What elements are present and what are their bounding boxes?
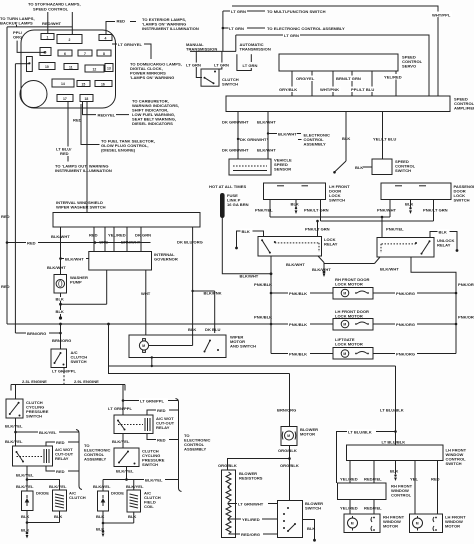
svg-text:ORG/BLK: ORG/BLK — [278, 448, 297, 453]
svg-text:PNK/ORG: PNK/ORG — [458, 282, 474, 287]
wire red/yel from fuse 18 — [83, 102, 97, 115]
fuse 13 — [105, 64, 113, 72]
clutch cycling pressure switch 2.3L — [6, 399, 23, 418]
svg-text:BLK: BLK — [405, 201, 413, 206]
pass switch pnk/wht pin — [389, 200, 391, 218]
left bus 2: from fuse 9 to brn/org corner — [14, 64, 16, 333]
brn/org tap — [59, 323, 62, 326]
diode 2.9L — [98, 491, 109, 511]
svg-text:SWITCH: SWITCH — [305, 506, 321, 511]
svg-text:BLK: BLK — [390, 469, 398, 474]
rh lock motor wires — [271, 292, 333, 294]
blk hook to lock relay — [237, 231, 264, 248]
speed control amplifier — [226, 96, 450, 112]
svg-text:GOVERNOR: GOVERNOR — [154, 257, 178, 262]
svg-text:PPL/LT BLU: PPL/LT BLU — [351, 87, 374, 92]
left bus red — [6, 27, 8, 324]
svg-text:LT GRN: LT GRN — [186, 62, 201, 67]
svg-text:PNK/BLK: PNK/BLK — [289, 291, 307, 296]
svg-text:10: 10 — [45, 65, 49, 69]
svg-text:BLK/YEL: BLK/YEL — [126, 484, 144, 489]
svg-text:BLK/YEL: BLK/YEL — [16, 473, 34, 478]
svg-text:RED/YEL: RED/YEL — [364, 477, 382, 482]
wht/ppl wire top right — [232, 6, 438, 96]
a/c clutch field coil — [127, 490, 141, 512]
svg-text:BLK: BLK — [291, 201, 299, 206]
transmission junction line — [190, 50, 236, 52]
svg-text:DK GRN: DK GRN — [135, 233, 151, 238]
svg-text:YEL/RED: YEL/RED — [108, 233, 126, 238]
lt grn riser — [222, 11, 224, 51]
speed control servo — [279, 54, 398, 71]
svg-text:2: 2 — [69, 38, 71, 42]
svg-text:LT GRN: LT GRN — [229, 26, 244, 31]
svg-text:SWITCH: SWITCH — [222, 82, 238, 87]
svg-text:ORG/YEL: ORG/YEL — [296, 76, 315, 81]
svg-text:AMPLIFIER: AMPLIFIER — [454, 106, 474, 111]
svg-text:RESISTORS: RESISTORS — [239, 476, 263, 481]
svg-text:PNK/YEL: PNK/YEL — [255, 208, 273, 213]
svg-text:ORG: ORG — [99, 240, 108, 245]
fuse 16 — [95, 81, 112, 87]
svg-text:BLK/YEL: BLK/YEL — [39, 430, 57, 435]
wiper motor and switch box — [129, 335, 226, 358]
svg-text:ORG: ORG — [13, 35, 22, 40]
relay output 2.3L — [26, 466, 28, 491]
diode 2.3L — [22, 491, 34, 511]
svg-text:LT GRN/PPL: LT GRN/PPL — [140, 398, 164, 403]
svg-text:MOTOR: MOTOR — [445, 524, 460, 529]
svg-text:6: 6 — [64, 52, 66, 56]
servo wire labels — [295, 76, 315, 82]
fuse 12 — [85, 65, 104, 72]
svg-text:WHT: WHT — [141, 291, 151, 296]
rh front window motor — [344, 514, 380, 533]
svg-text:BRN/ORG: BRN/ORG — [277, 408, 296, 413]
svg-text:RELAY: RELAY — [156, 425, 170, 430]
svg-text:YEL/RED: YEL/RED — [340, 477, 358, 482]
svg-text:SENSOR: SENSOR — [274, 167, 291, 172]
svg-text:DIODE: DIODE — [36, 491, 49, 496]
wire from stop/hazard label to fuse 2 — [71, 12, 73, 35]
svg-text:PNK/BLK: PNK/BLK — [254, 282, 272, 287]
svg-text:LT BLU/BLK: LT BLU/BLK — [348, 429, 372, 434]
blk ground from blower switch — [303, 520, 315, 540]
lh front window motor — [410, 514, 443, 533]
svg-text:DK GRN/WHT: DK GRN/WHT — [222, 120, 249, 125]
svg-text:PNK/WHT: PNK/WHT — [377, 208, 397, 213]
svg-text:INSTRUMENT ILLUMINATION: INSTRUMENT ILLUMINATION — [142, 26, 199, 31]
svg-text:SWITCH: SWITCH — [329, 197, 345, 202]
fuse 14 — [52, 79, 74, 87]
svg-text:2.3L ENGINE: 2.3L ENGINE — [22, 379, 47, 384]
svg-text:M: M — [416, 522, 419, 526]
svg-text:BLK/WHT: BLK/WHT — [286, 262, 305, 267]
svg-text:INSTRUMENT ILLUMINATION: INSTRUMENT ILLUMINATION — [55, 168, 112, 173]
lt blu/blk jumper to rh control — [337, 432, 396, 484]
clutch cycling pressure switch 2.9L — [114, 448, 139, 467]
blk wire from amplifier — [345, 112, 347, 162]
fuse 7 — [78, 50, 92, 56]
svg-text:RED/YEL: RED/YEL — [98, 112, 116, 117]
branch to blower resistors — [228, 459, 290, 471]
svg-text:BLK: BLK — [355, 165, 363, 170]
svg-text:CONTROL: CONTROL — [391, 493, 412, 498]
blk/yel jumper to eca bracket — [16, 431, 80, 433]
svg-text:8: 8 — [103, 52, 105, 56]
svg-text:RELAY: RELAY — [324, 242, 338, 247]
svg-text:RED: RED — [1, 214, 10, 219]
svg-text:PNK/ORG: PNK/ORG — [396, 351, 415, 356]
svg-text:RED: RED — [56, 440, 65, 445]
liftgate motor wires — [271, 353, 333, 355]
svg-text:DK BLU/ORG: DK BLU/ORG — [177, 240, 203, 245]
svg-text:BLK/WHT: BLK/WHT — [51, 234, 70, 239]
fuse panel outline — [21, 30, 116, 108]
lt blu/blk junction — [394, 430, 397, 433]
lh switch blk ground — [295, 200, 297, 208]
lt grn/ppl jumper to eca bracket 2.9L — [123, 400, 179, 402]
lh switch pnk/yel pin — [269, 200, 271, 218]
svg-text:15: 15 — [82, 82, 86, 86]
svg-text:18: 18 — [85, 97, 89, 101]
svg-text:DIESEL INDICATORS: DIESEL INDICATORS — [132, 121, 173, 126]
svg-text:YEL: YEL — [410, 477, 418, 482]
window feed tap — [107, 323, 110, 326]
svg-text:RED: RED — [157, 437, 166, 442]
red bottom wire 2.9L relay — [147, 434, 179, 440]
wiper switch red pin — [93, 227, 95, 252]
unlock relay output to pnk/org bus — [411, 257, 456, 354]
wire feed to wiper switch — [86, 102, 88, 213]
svg-text:RED/ORG: RED/ORG — [241, 532, 260, 537]
svg-text:RED/WHT: RED/WHT — [42, 21, 62, 26]
washer pump ground — [60, 293, 62, 297]
svg-text:PNK/ORG: PNK/ORG — [396, 322, 415, 327]
svg-text:14: 14 — [61, 82, 65, 86]
svg-text:PNK/LT GRN: PNK/LT GRN — [423, 208, 448, 213]
label electronic control assembly — [298, 139, 302, 141]
svg-text:7: 7 — [84, 52, 86, 56]
svg-text:2.9L ENGINE: 2.9L ENGINE — [74, 379, 99, 384]
svg-text:BLK: BLK — [307, 526, 315, 531]
long feed line to lock motors — [7, 323, 271, 325]
pnk/yel bus — [270, 216, 390, 218]
svg-text:BLK: BLK — [128, 514, 136, 519]
2.9L column wire — [122, 385, 124, 416]
lock relay bottom pin to bus — [270, 256, 272, 354]
svg-text:YEL/LT BLU: YEL/LT BLU — [373, 136, 396, 141]
svg-text:M: M — [287, 434, 290, 438]
wire lt grn/yel exit — [112, 43, 117, 45]
brn/org jog from left bus — [15, 332, 60, 334]
svg-text:ASSEMBLY: ASSEMBLY — [84, 457, 107, 462]
wire red drop from fuse 17 to lamps-out arrow — [67, 102, 69, 147]
lh switch pnk/lt grn pin — [320, 200, 322, 222]
svg-text:PNK/ORG: PNK/ORG — [396, 291, 415, 296]
lh lock motor wires — [271, 323, 333, 325]
svg-text:BLK/YEL: BLK/YEL — [145, 477, 163, 482]
a/c clutch switch — [51, 349, 67, 368]
eca bracket 2.9L — [176, 399, 182, 492]
red feed junction — [7, 242, 151, 244]
svg-text:BLK/YEL: BLK/YEL — [5, 439, 23, 444]
fuse 6 — [58, 50, 72, 56]
stub to multi-function switch — [223, 10, 230, 12]
yel/lt blu wire — [382, 112, 384, 160]
svg-text:PNK/LT GRN: PNK/LT GRN — [305, 227, 330, 232]
svg-text:PNK/BLK: PNK/BLK — [289, 322, 307, 327]
svg-text:LOCK MOTOR: LOCK MOTOR — [335, 282, 363, 287]
svg-text:16 GA BRN: 16 GA BRN — [227, 202, 249, 207]
svg-text:BLK/YEL: BLK/YEL — [93, 484, 111, 489]
svg-text:17: 17 — [63, 97, 67, 101]
red top wire 2.3L relay — [46, 442, 79, 446]
svg-text:BLK/WHT: BLK/WHT — [312, 267, 331, 272]
svg-text:BLK: BLK — [21, 528, 29, 533]
svg-text:BLK: BLK — [439, 229, 447, 234]
svg-text:11: 11 — [69, 65, 73, 69]
svg-text:BLK/YEL: BLK/YEL — [112, 439, 130, 444]
svg-text:SWITCH: SWITCH — [26, 414, 42, 419]
blk/wht wire — [267, 112, 269, 160]
svg-text:BLK: BLK — [188, 327, 196, 332]
svg-text:LT BLU/BLK: LT BLU/BLK — [380, 408, 404, 413]
fuse 1 — [41, 34, 54, 40]
svg-text:SWITCH: SWITCH — [395, 168, 411, 173]
svg-text:BLK/WHT: BLK/WHT — [380, 266, 399, 271]
eca bracket 2.3L — [76, 430, 82, 490]
wire to fuel tank selector — [81, 104, 100, 145]
clutch switch — [201, 69, 219, 86]
svg-text:RED: RED — [60, 151, 69, 156]
branch to a/c clutch — [27, 480, 60, 491]
washer pump ground jog to governor — [61, 303, 107, 305]
svg-text:CLUTCH: CLUTCH — [69, 495, 86, 500]
org/blk below blower motor — [289, 446, 291, 501]
svg-text:TO MULTI-FUNCTION SWITCH: TO MULTI-FUNCTION SWITCH — [267, 9, 326, 14]
wiper switch dk grn pin — [140, 227, 142, 252]
lh front window control switch — [347, 445, 444, 461]
svg-text:SWITCH: SWITCH — [454, 197, 470, 202]
dk blu/org pin to wiper motor — [192, 227, 194, 335]
speed control switch — [372, 159, 392, 175]
svg-text:LT GRN/PPL: LT GRN/PPL — [108, 406, 132, 411]
blk to speed control switch — [363, 166, 372, 168]
lt blu/blk drop to window section — [395, 366, 397, 445]
wire ppl/org to fuse 5 — [17, 41, 44, 53]
governor wht pin to wiper motor — [145, 270, 147, 335]
window switch pins — [349, 461, 351, 484]
svg-text:BLK/WHT: BLK/WHT — [47, 265, 66, 270]
vehicle speed sensor — [229, 159, 271, 175]
svg-text:DK GRN/WHT: DK GRN/WHT — [240, 137, 267, 142]
svg-text:RED: RED — [89, 233, 98, 238]
svg-text:BLK: BLK — [21, 514, 29, 519]
fuse 15 — [77, 81, 90, 87]
fuse panel connector circle — [20, 81, 47, 108]
svg-text:SPEED CONTROL: SPEED CONTROL — [33, 7, 69, 12]
dk grn/wht wire — [237, 112, 239, 160]
wire from stop/hazard label to fuse 1 — [47, 12, 49, 34]
svg-text:BLK: BLK — [56, 296, 64, 301]
svg-text:MOTOR: MOTOR — [383, 524, 398, 529]
svg-text:SERVO: SERVO — [402, 64, 416, 69]
a/c clutch 2.3L — [53, 490, 67, 511]
fuse 4 — [99, 35, 112, 41]
unlock relay ground pin — [375, 257, 381, 264]
a/c wot cut-out relay 2.9L — [114, 415, 153, 434]
drop to lock relay — [317, 221, 319, 237]
svg-text:LT GRN: LT GRN — [214, 62, 229, 67]
engine bracket — [11, 384, 125, 386]
svg-text:ASSEMBLY: ASSEMBLY — [184, 447, 207, 452]
svg-text:PNK/YEL: PNK/YEL — [386, 227, 404, 232]
lt grn/yel feed line into riser / to electronic control assembly — [223, 27, 230, 29]
blower resistors — [222, 470, 236, 538]
svg-text:BLK: BLK — [242, 229, 250, 234]
svg-text:GRY/BLK: GRY/BLK — [279, 87, 297, 92]
svg-text:SWITCH: SWITCH — [142, 462, 158, 467]
drop to unlock relay — [381, 217, 383, 238]
blower switch — [278, 501, 303, 538]
svg-text:AND SWITCH: AND SWITCH — [230, 344, 256, 349]
split to diode and field coil — [103, 479, 127, 481]
fuse 8 — [97, 50, 111, 56]
rh front window control — [338, 483, 387, 500]
svg-text:BRN/ORG: BRN/ORG — [52, 338, 71, 343]
svg-text:MOTOR: MOTOR — [300, 432, 315, 437]
servo pin wires — [291, 71, 293, 96]
svg-text:BLK: BLK — [54, 514, 62, 519]
fuse 9 — [27, 57, 33, 72]
wiper switch brn/wht pin — [126, 227, 128, 252]
svg-text:BRN/WHT: BRN/WHT — [121, 240, 141, 245]
svg-text:WIPER WASHER SWITCH: WIPER WASHER SWITCH — [56, 205, 106, 210]
rh control outputs — [349, 500, 351, 515]
blk wire unlock relay to ground dot — [430, 232, 457, 250]
output 2.9L — [126, 467, 128, 480]
wire red exit to exterior lamps — [106, 22, 115, 35]
lock relay ground pin — [318, 256, 324, 263]
svg-text:ORG/BLK: ORG/BLK — [280, 463, 299, 468]
svg-text:BLK/WHT: BLK/WHT — [257, 120, 276, 125]
svg-text:DK BLU: DK BLU — [205, 327, 220, 332]
blower motor — [281, 427, 297, 446]
pass switch blk ground — [410, 200, 412, 208]
blk/yel jumper to bracket 2.9L — [127, 479, 179, 481]
fuse link wire to lock relay bus — [222, 218, 271, 274]
svg-text:PNK/BLK: PNK/BLK — [289, 351, 307, 356]
svg-text:RED: RED — [157, 408, 166, 413]
blk/wht to eca — [267, 132, 269, 134]
svg-text:RED: RED — [1, 284, 10, 289]
svg-text:M: M — [351, 522, 354, 526]
wiper switch blk/wht pin — [60, 227, 62, 275]
svg-text:M: M — [343, 323, 346, 327]
svg-text:RED/YEL: RED/YEL — [364, 506, 382, 511]
svg-text:SWITCH: SWITCH — [446, 461, 462, 466]
a/c wot cut-out relay 2.3L — [13, 446, 53, 466]
svg-text:RELAY: RELAY — [437, 243, 451, 248]
washer pump — [54, 275, 67, 294]
svg-text:DK GRN/WHT: DK GRN/WHT — [222, 148, 249, 153]
clutch switch wiring — [195, 51, 197, 62]
relay output 2.9L — [122, 434, 124, 449]
svg-text:BLK/YEL: BLK/YEL — [116, 469, 134, 474]
svg-text:PNK/BLK: PNK/BLK — [254, 315, 272, 320]
pnk/lt grn bus — [321, 220, 434, 222]
svg-text:ASSEMBLY: ASSEMBLY — [304, 142, 327, 147]
svg-text:BLK/YEL: BLK/YEL — [16, 484, 34, 489]
red top wire 2.9L relay — [147, 410, 179, 415]
svg-text:WHT/PNK: WHT/PNK — [320, 87, 339, 92]
svg-text:YEL/RED: YEL/RED — [242, 517, 260, 522]
svg-text:BLK/WHT: BLK/WHT — [278, 131, 297, 136]
svg-text:BRN/ORG: BRN/ORG — [27, 331, 46, 336]
svg-text:HOT AT ALL TIMES: HOT AT ALL TIMES — [209, 184, 246, 189]
svg-text:BLK/YEL: BLK/YEL — [5, 424, 23, 429]
jumper dk grn/wht — [237, 138, 239, 140]
blk/wht jog to governor — [59, 257, 62, 260]
lh front door lock switch — [264, 183, 326, 200]
svg-text:M: M — [343, 352, 346, 356]
svg-text:BLK/WHT: BLK/WHT — [240, 273, 259, 278]
svg-text:16: 16 — [101, 82, 105, 86]
svg-text:1: 1 — [47, 35, 49, 39]
red bottom wire 2.3L relay — [46, 466, 79, 471]
wiper washer switch box — [53, 213, 200, 228]
fuse 11 — [64, 64, 78, 70]
wiper switch yel/red pin — [113, 227, 115, 252]
svg-text:12: 12 — [93, 67, 97, 71]
svg-text:M: M — [343, 292, 346, 296]
svg-text:PNK/LT GRN: PNK/LT GRN — [304, 208, 329, 213]
svg-text:13: 13 — [107, 66, 111, 70]
svg-text:LT GRN: LT GRN — [284, 33, 299, 38]
wire turn lamps to left bus — [16, 25, 18, 27]
svg-text:(DIESEL ENGINE): (DIESEL ENGINE) — [101, 147, 136, 152]
svg-text:RED: RED — [431, 477, 440, 482]
fuse 17 — [57, 95, 73, 102]
dk blu jog wire — [193, 290, 215, 292]
svg-text:'LAMPS ON' WARNING: 'LAMPS ON' WARNING — [130, 75, 174, 80]
fuse 18 — [80, 95, 93, 102]
svg-text:LT GRN: LT GRN — [231, 9, 246, 14]
svg-text:BLK: BLK — [342, 136, 350, 141]
svg-text:LOCK MOTOR: LOCK MOTOR — [335, 342, 363, 347]
svg-text:PUMP: PUMP — [70, 280, 82, 285]
svg-text:RED: RED — [27, 240, 36, 245]
svg-text:BLK/YEL: BLK/YEL — [49, 484, 67, 489]
svg-text:LT BLU/BLK: LT BLU/BLK — [382, 440, 406, 445]
svg-text:LT GRN/WHT: LT GRN/WHT — [238, 501, 264, 506]
fuse 2 — [57, 35, 82, 44]
svg-text:YEL/RED: YEL/RED — [340, 506, 358, 511]
svg-text:BLK: BLK — [56, 309, 64, 314]
2.3L column wire — [15, 385, 17, 400]
fuse 10 — [39, 63, 55, 70]
svg-text:BLK/WHT: BLK/WHT — [65, 256, 84, 261]
svg-text:4: 4 — [105, 36, 107, 40]
svg-text:TRANSMISSION: TRANSMISSION — [186, 47, 217, 52]
svg-text:TRANSMISSION: TRANSMISSION — [240, 47, 271, 52]
unlock relay — [377, 238, 434, 258]
svg-text:PNK/ORG: PNK/ORG — [458, 315, 474, 320]
svg-text:WHT/PPL: WHT/PPL — [432, 12, 451, 17]
passenger's door lock switch — [381, 183, 451, 200]
svg-text:M: M — [142, 344, 145, 348]
